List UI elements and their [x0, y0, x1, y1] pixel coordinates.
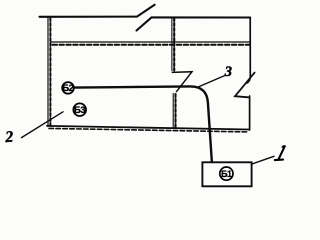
svg-text:Б1: Б1	[221, 169, 232, 179]
svg-text:Б2: Б2	[62, 83, 73, 94]
svg-text:3: 3	[224, 64, 232, 80]
svg-text:2: 2	[4, 129, 14, 147]
svg-text:Б3: Б3	[74, 105, 85, 116]
